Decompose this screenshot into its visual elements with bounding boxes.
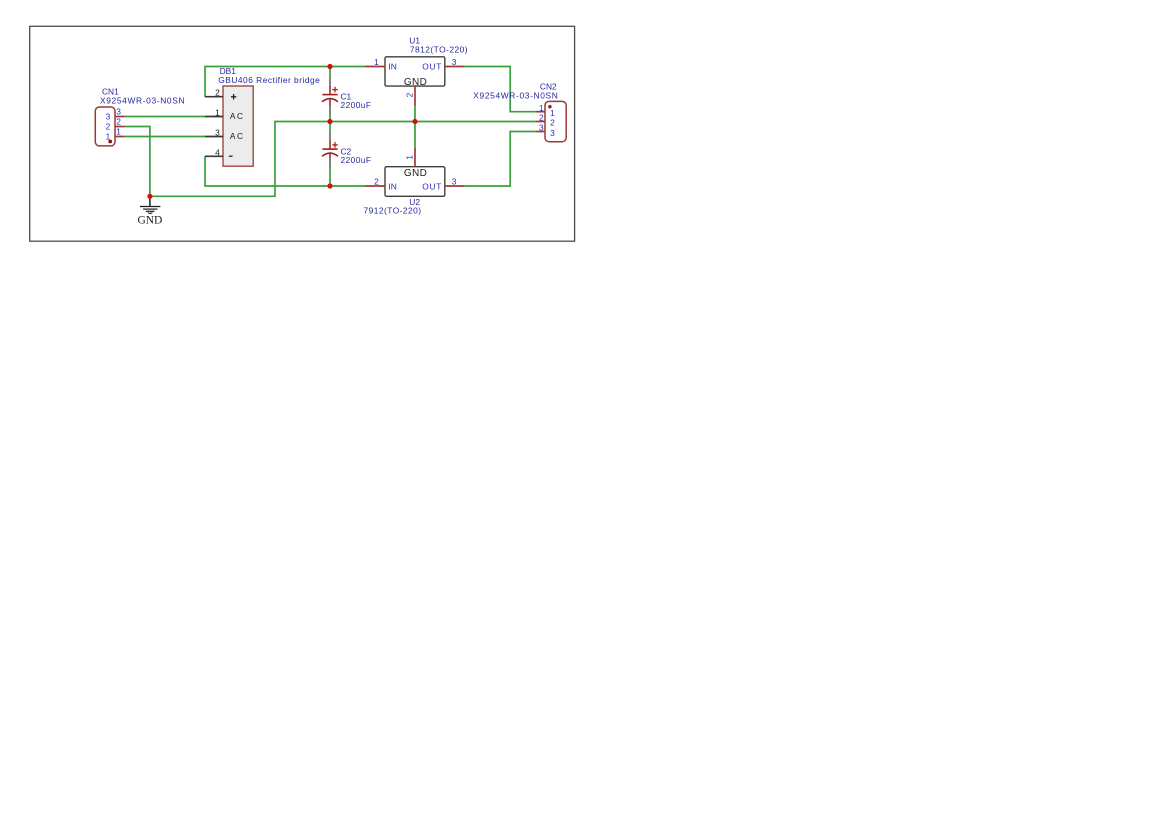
svg-text:X9254WR-03-N0SN: X9254WR-03-N0SN (100, 96, 185, 106)
DB1 pin name minus (229, 155, 233, 157)
wire DB1 pin4 to U2 IN (bottom rail) (205, 156, 365, 186)
wire U1 OUT to CN2 pin1 (465, 67, 536, 112)
U2 pin 1 stub (GND) (414, 147, 416, 166)
svg-text:1: 1 (539, 103, 544, 113)
svg-text:OUT: OUT (422, 61, 441, 71)
svg-text:1: 1 (116, 127, 121, 137)
svg-text:GND: GND (404, 168, 427, 179)
svg-text:2: 2 (106, 122, 111, 132)
svg-text:IN: IN (388, 182, 396, 192)
DB1 pin 4 stub (205, 155, 223, 157)
wire U1 GND pin to mid rail (414, 106, 416, 121)
svg-text:2: 2 (116, 117, 121, 127)
svg-text:3: 3 (452, 57, 457, 67)
svg-text:7912(TO-220): 7912(TO-220) (364, 206, 422, 216)
DB1 pin 3 stub (205, 136, 223, 138)
svg-text:2: 2 (539, 113, 544, 123)
connector CN2 (473, 81, 566, 141)
CN2 pin 1 stub (536, 111, 545, 113)
wire DB1 pin2 to U1 IN (top rail) (205, 67, 365, 97)
CN1 pin 1 stub (115, 136, 125, 138)
node junction GND (147, 194, 152, 199)
CN1 pin 3 stub (115, 116, 125, 118)
svg-text:3: 3 (550, 128, 555, 138)
svg-text:2: 2 (405, 92, 415, 97)
ground bar 3 (146, 210, 155, 212)
regulator U2 (364, 147, 465, 215)
U1 pin 2 stub (GND) (414, 86, 416, 106)
ground symbol (137, 196, 162, 226)
C1 curved plate (322, 99, 338, 102)
svg-text:3: 3 (106, 112, 111, 122)
node junction mid rail / C1 C2 (327, 119, 332, 124)
CN2 inside pin numbers (550, 108, 555, 138)
C2 top lead (329, 122, 331, 133)
CN1 pin1 polarity dot (108, 140, 112, 144)
CN2 pin 2 stub (536, 121, 545, 123)
U1 pin 1 stub (IN) (365, 66, 385, 68)
svg-text:IN: IN (388, 61, 396, 71)
ground bar 2 (143, 208, 157, 210)
svg-text:1: 1 (405, 155, 415, 160)
DB1 pin numbers (215, 88, 220, 158)
C2 positive plate (322, 148, 337, 150)
CN1 pin 2 stub (115, 126, 125, 128)
svg-text:2: 2 (550, 118, 555, 128)
C1 positive plate (322, 94, 337, 96)
svg-text:2: 2 (215, 88, 220, 98)
wire CN1 pin3 to DB1 pin1 (125, 116, 205, 118)
svg-text:GND: GND (137, 214, 162, 226)
C1 bottom lead (329, 99, 331, 106)
CN2 pin1 polarity dot (548, 105, 551, 108)
svg-text:2: 2 (374, 177, 379, 187)
C2 curved plate (322, 153, 338, 156)
svg-text:1: 1 (550, 108, 555, 118)
svg-text:AC: AC (230, 111, 243, 121)
svg-text:3: 3 (539, 123, 544, 133)
svg-text:OUT: OUT (422, 182, 441, 192)
wire CN1 pin2 to GND node (125, 127, 150, 197)
wire mid rail to U2 GND pin (414, 122, 416, 148)
regulator U1 (365, 36, 468, 107)
svg-text:2200uF: 2200uF (341, 100, 372, 110)
capacitor C1 (322, 67, 371, 122)
svg-text:GND: GND (404, 77, 427, 88)
svg-text:3: 3 (452, 177, 457, 187)
node junction bottom rail / C2 (327, 183, 332, 188)
CN1 outside pin numbers (116, 107, 121, 137)
connector CN1 (95, 86, 184, 145)
rectifier bridge DB1 (205, 66, 320, 166)
svg-text:4: 4 (215, 147, 220, 157)
ground stem (149, 196, 151, 206)
CN2 body (545, 101, 566, 141)
wire CN1 pin1 to DB1 pin3 (125, 136, 205, 138)
CN2 outside pin numbers (539, 103, 544, 133)
svg-text:GBU406 Rectifier bridge: GBU406 Rectifier bridge (218, 75, 320, 85)
ground arc (148, 212, 152, 215)
DB1 pin 2 stub (205, 96, 223, 98)
C2 plus sign (332, 142, 338, 148)
node junction top rail / C1 (327, 64, 332, 69)
C1 plus sign (332, 87, 338, 93)
svg-text:7812(TO-220): 7812(TO-220) (410, 45, 468, 55)
svg-text:3: 3 (215, 128, 220, 138)
U2 body (385, 167, 445, 197)
svg-text:1: 1 (374, 57, 379, 67)
U1 body (385, 57, 445, 86)
node junction mid rail / U GND (412, 119, 417, 124)
wire GND rail to mid rail to CN2 pin2 (150, 122, 536, 197)
CN1 inside pin numbers (106, 112, 111, 142)
CN1 body (95, 107, 115, 146)
wire U2 OUT to CN2 pin3 (465, 132, 536, 187)
DB1 pin name + (231, 94, 236, 99)
U2 pin 2 stub (IN) (365, 185, 385, 187)
svg-text:2200uF: 2200uF (341, 155, 372, 165)
C2 bottom lead (329, 153, 331, 158)
C1 top lead (329, 67, 331, 78)
svg-text:AC: AC (230, 131, 243, 141)
svg-text:1: 1 (106, 132, 111, 142)
svg-text:3: 3 (116, 107, 121, 117)
U1 pin 3 stub (OUT) (445, 66, 465, 68)
ground bar 1 (140, 206, 160, 208)
CN2 pin 3 stub (536, 131, 545, 133)
capacitor C2 (322, 122, 371, 187)
DB1 pin 1 stub (205, 116, 223, 118)
svg-text:X9254WR-03-N0SN: X9254WR-03-N0SN (473, 90, 558, 100)
U2 pin 3 stub (OUT) (445, 185, 465, 187)
svg-text:1: 1 (215, 108, 220, 118)
DB1 body (223, 86, 253, 166)
